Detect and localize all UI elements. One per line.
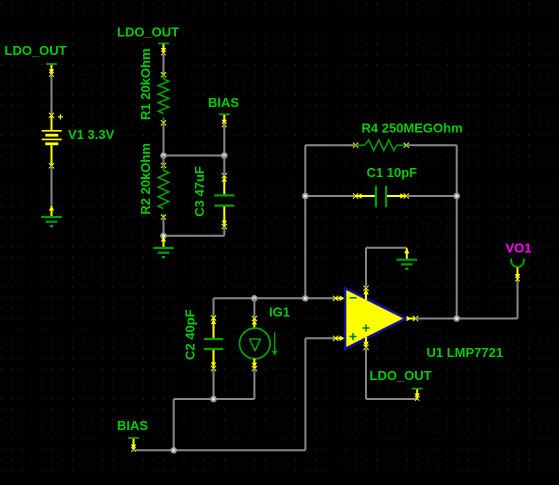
wire (214, 297, 336, 299)
node (feedback-inverting) (302, 295, 309, 302)
node (C1 left) (302, 193, 309, 200)
svg-text:R4 250MEGOhm: R4 250MEGOhm (362, 121, 463, 136)
label BIAS (bottom) (117, 418, 148, 433)
pin U1 non-inverting input (333, 336, 345, 342)
ground (battery) (41, 206, 62, 227)
wire (406, 195, 456, 197)
svg-text:R2 20kOhm: R2 20kOhm (138, 143, 153, 215)
pin U1 output (407, 316, 419, 322)
label V1 3.3V (68, 127, 115, 142)
wire (406, 144, 456, 146)
wire (163, 53, 165, 75)
terminal BIAS (bottom) (128, 438, 139, 452)
wire (305, 195, 354, 197)
svg-text:IG1: IG1 (269, 305, 290, 320)
resistor R1 (158, 72, 169, 125)
resistor R2 (158, 163, 169, 220)
svg-text:R1 20kOhm: R1 20kOhm (138, 48, 153, 120)
svg-text:U1 LMP7721: U1 LMP7721 (427, 345, 504, 360)
node (C1 right) (453, 193, 460, 200)
svg-text:C1 10pF: C1 10pF (367, 165, 418, 180)
node (R2-C3-gnd) (160, 233, 167, 240)
wire (223, 156, 225, 177)
wire (517, 280, 519, 319)
svg-text:C2 40pF: C2 40pF (183, 309, 198, 360)
label LDO_OUT (battery) (5, 43, 67, 58)
label R2 20kOhm (138, 143, 153, 215)
resistor R4 (353, 140, 409, 151)
ground (op-amp V-) (397, 248, 418, 269)
node (C2 bottom) (210, 396, 217, 403)
svg-text:LDO_OUT: LDO_OUT (117, 25, 179, 40)
wire (213, 368, 215, 399)
node (R1-R2-BIAS) (160, 152, 167, 159)
label U1 LMP7721 (427, 345, 504, 360)
wire (174, 398, 255, 400)
wire (305, 337, 335, 339)
wire (366, 248, 407, 288)
svg-text:BIAS: BIAS (208, 95, 239, 110)
node (output) (453, 315, 460, 322)
op-amp U1 (345, 288, 406, 349)
capacitor C2 (204, 298, 224, 371)
current source IG1 (240, 298, 278, 371)
svg-text:BIAS: BIAS (117, 418, 148, 433)
wire (366, 347, 417, 399)
wire (416, 318, 518, 320)
capacitor C3 (214, 173, 234, 229)
wire (163, 217, 165, 236)
label IG1 (269, 305, 290, 320)
wire (304, 338, 306, 450)
node (IG1 top) (251, 295, 258, 302)
wire (134, 449, 306, 451)
terminal LDO_OUT (battery) (46, 64, 57, 77)
wire (305, 144, 355, 146)
label LDO_OUT (divider top) (117, 25, 179, 40)
ground (divider) (153, 237, 174, 258)
label VO1 (506, 241, 532, 256)
pin U1 inverting input (333, 296, 345, 302)
label LDO_OUT (op-amp supply) (370, 368, 432, 383)
label C1 10pF (367, 165, 418, 180)
battery V1 (42, 113, 64, 169)
node (BIAS wire junction) (170, 447, 177, 454)
svg-text:+: + (58, 113, 64, 124)
label C3 47uF (192, 166, 207, 217)
pin U1 V+ (bottom) (363, 337, 369, 350)
wire (253, 369, 255, 399)
terminal LDO_OUT (divider top) (158, 43, 169, 55)
label R4 250MEGOhm (362, 121, 463, 136)
svg-text:LDO_OUT: LDO_OUT (370, 368, 432, 383)
pin U1 V- (top) (363, 286, 369, 300)
svg-text:LDO_OUT: LDO_OUT (5, 43, 67, 58)
wire (223, 123, 225, 156)
svg-text:VO1: VO1 (506, 241, 532, 256)
wire (51, 166, 53, 205)
wire (456, 145, 458, 318)
node (BIAS-C3) (221, 152, 228, 159)
label R1 20kOhm (138, 48, 153, 120)
label BIAS (top) (208, 95, 239, 110)
terminal BIAS (top) (219, 114, 230, 127)
wire (51, 75, 53, 115)
capacitor C1 (353, 186, 409, 208)
wire (163, 123, 165, 156)
label C2 40pF (183, 309, 198, 360)
terminal LDO_OUT (op-amp supply) (412, 389, 423, 401)
svg-text:V1 3.3V: V1 3.3V (68, 127, 115, 142)
wire (164, 155, 225, 157)
svg-text:C3 47uF: C3 47uF (192, 166, 207, 217)
wire (163, 156, 165, 166)
terminal VO1 (511, 259, 524, 282)
wire (164, 227, 225, 236)
wire (173, 399, 175, 450)
wire (304, 145, 306, 298)
